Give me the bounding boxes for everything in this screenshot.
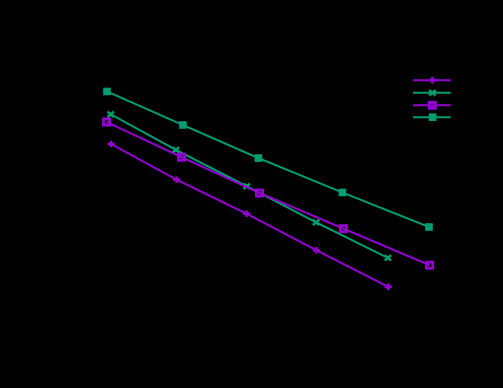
series A line (purple, plus markers) <box>111 144 388 287</box>
series A plus markers <box>108 141 392 290</box>
series D filled square markers <box>103 88 433 231</box>
legend entry 2 sample line (teal) <box>413 92 451 94</box>
legend entry 3 open square marker <box>428 101 437 110</box>
legend entry 2 x marker <box>429 90 435 95</box>
legend entry 4 sample line (teal) <box>413 116 451 118</box>
series B line (teal, x markers) <box>111 114 388 258</box>
legend entry 4 filled square marker <box>429 113 437 121</box>
legend entry 3 sample line (purple) <box>413 104 451 106</box>
series D line (teal, filled square markers) <box>107 92 429 228</box>
legend entry 1 plus marker <box>429 77 436 84</box>
series B x markers <box>108 112 392 261</box>
series C open square markers <box>104 119 433 268</box>
legend entry 1 sample line (purple) <box>413 79 451 81</box>
series C line (purple, open square markers) <box>107 122 430 265</box>
